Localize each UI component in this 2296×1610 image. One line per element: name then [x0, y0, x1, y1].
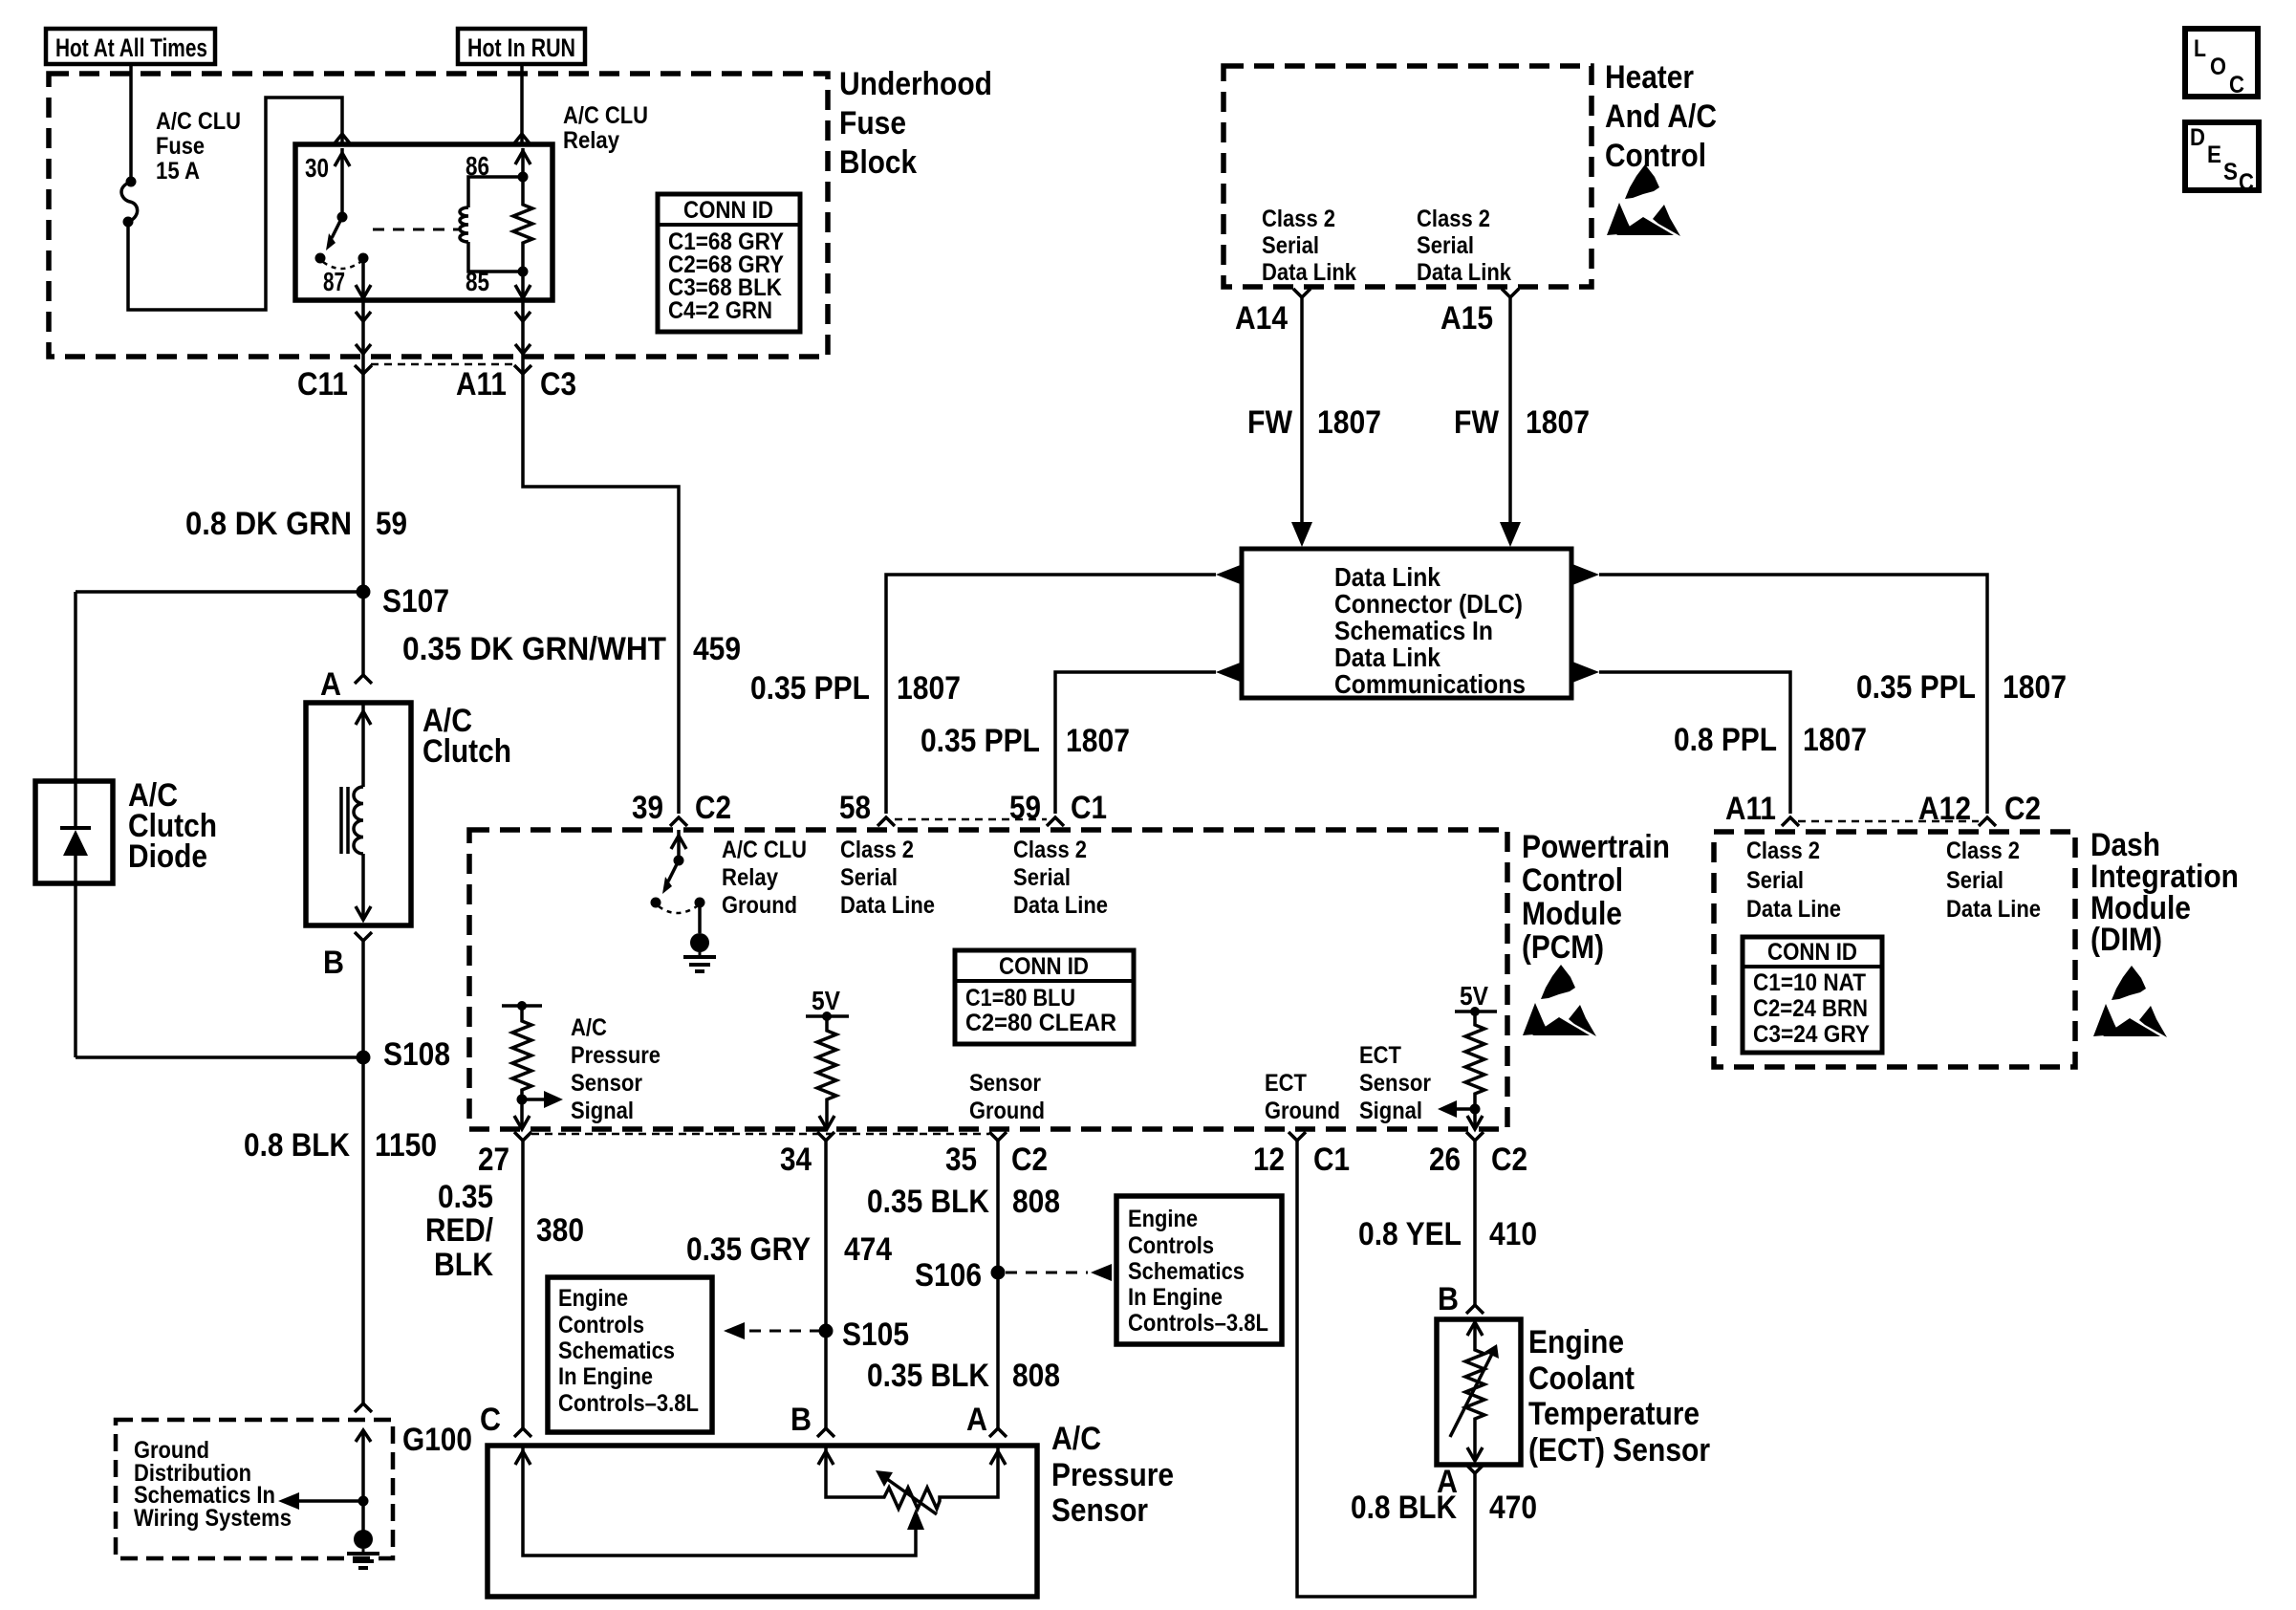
svg-text:Data Link: Data Link: [1334, 642, 1440, 672]
svg-text:A15: A15: [1440, 300, 1493, 337]
svg-text:Sensor: Sensor: [1359, 1070, 1431, 1097]
ESD symbol (PCM): [1523, 965, 1596, 1036]
svg-text:G100: G100: [402, 1422, 472, 1458]
svg-text:(ECT) Sensor: (ECT) Sensor: [1528, 1432, 1710, 1469]
svg-text:C: C: [2229, 72, 2244, 98]
fuse F1: A/C CLU Fuse 15 A: [121, 108, 241, 228]
relay label: [563, 102, 648, 154]
svg-text:C1=80 BLU: C1=80 BLU: [965, 985, 1075, 1012]
svg-text:ECT: ECT: [1359, 1042, 1401, 1069]
svg-text:A11: A11: [1725, 791, 1776, 827]
svg-text:O: O: [2210, 54, 2226, 80]
svg-text:459: 459: [693, 631, 741, 667]
connector 34: [817, 1132, 834, 1141]
engine controls note box (left): [548, 1277, 712, 1432]
wire 59: 0.8 DK GRN from C11 to S107: [361, 374, 365, 592]
svg-text:A/C: A/C: [571, 1014, 607, 1041]
CONN ID table (PCM): [955, 950, 1134, 1044]
svg-text:474: 474: [844, 1231, 892, 1268]
svg-text:E: E: [2207, 141, 2221, 168]
svg-text:Sensor: Sensor: [1051, 1492, 1148, 1529]
svg-text:A/C: A/C: [1051, 1421, 1101, 1457]
ground G100: [356, 1430, 371, 1442]
svg-text:Relay: Relay: [563, 127, 619, 154]
wire: S107 down to A/C Clutch pin A: [361, 592, 365, 675]
svg-text:Pressure: Pressure: [1051, 1457, 1174, 1493]
connector 26/C2: [1466, 1132, 1484, 1141]
svg-text:Serial: Serial: [1746, 867, 1804, 894]
svg-text:Engine: Engine: [1128, 1206, 1198, 1232]
svg-text:BLK: BLK: [434, 1247, 493, 1283]
svg-text:0.8 BLK: 0.8 BLK: [244, 1127, 350, 1164]
svg-text:A14: A14: [1235, 300, 1288, 337]
svg-text:808: 808: [1012, 1358, 1060, 1394]
svg-text:S108: S108: [383, 1036, 450, 1073]
svg-text:1807: 1807: [1526, 404, 1590, 441]
svg-text:Coolant: Coolant: [1528, 1360, 1635, 1397]
wire 808: 0.35 BLK upper: [996, 1141, 1000, 1428]
wire: fuse to relay pin 30: [128, 98, 342, 310]
relay switch arm: [315, 212, 369, 270]
svg-text:CONN ID: CONN ID: [999, 953, 1089, 980]
wire 470: 0.8 BLK from ECT A to PCM pin 12: [1297, 1141, 1475, 1597]
svg-text:Data Link: Data Link: [1262, 259, 1356, 286]
svg-text:C2=24 BRN: C2=24 BRN: [1753, 995, 1868, 1022]
resistor: A/C pressure sensor signal pull-up: [502, 1001, 563, 1129]
svg-text:C: C: [2239, 169, 2254, 196]
connector 58 (PCM top): [877, 817, 895, 826]
svg-text:Hot In RUN: Hot In RUN: [467, 33, 575, 62]
DLC right lower arrow to DIM A11: [1572, 662, 1599, 683]
svg-text:0.35 PPL: 0.35 PPL: [750, 670, 870, 707]
svg-text:27: 27: [478, 1142, 509, 1178]
node: ECT Sensor Signal: [1359, 1042, 1431, 1124]
svg-text:FW: FW: [1247, 404, 1293, 441]
svg-text:S: S: [2223, 159, 2238, 185]
connector A11/C3: [514, 365, 531, 374]
svg-text:(DIM): (DIM): [2090, 922, 2162, 958]
connector C11: [355, 365, 372, 374]
A/C CLU relay ground switch inside PCM: [651, 830, 717, 971]
node: ECT Ground: [1265, 1070, 1340, 1124]
svg-text:1807: 1807: [2003, 669, 2067, 706]
svg-text:59: 59: [376, 506, 407, 542]
svg-text:Class 2: Class 2: [1013, 837, 1087, 863]
A/C Clutch Diode D1: [35, 777, 217, 883]
svg-text:Data Line: Data Line: [1746, 896, 1841, 923]
svg-text:Sensor: Sensor: [571, 1070, 642, 1097]
wire 380: 0.35 RED/BLK: [521, 1141, 525, 1428]
svg-text:1807: 1807: [1803, 722, 1867, 758]
wire: battery feed from Hot At All Times to fuse: [129, 64, 133, 180]
ECT label: [1528, 1324, 1710, 1469]
svg-text:Class 2: Class 2: [1746, 838, 1820, 864]
relay coil: [460, 177, 523, 272]
wire 474: 0.35 GRY: [824, 1141, 828, 1428]
connector A12/C2 (DIM): [1979, 817, 1996, 826]
svg-text:0.8 YEL: 0.8 YEL: [1358, 1216, 1462, 1252]
svg-text:S105: S105: [842, 1316, 909, 1353]
svg-text:Communications: Communications: [1334, 669, 1526, 699]
svg-text:L: L: [2194, 35, 2206, 62]
node: Class 2 Serial Data Link (right, A15): [1417, 206, 1511, 286]
svg-text:0.8 PPL: 0.8 PPL: [1674, 722, 1777, 758]
svg-text:59: 59: [1009, 790, 1041, 826]
svg-text:B: B: [1438, 1281, 1459, 1317]
wiper arm: [907, 1509, 924, 1530]
svg-text:A/C CLU: A/C CLU: [156, 108, 241, 135]
svg-text:S106: S106: [915, 1257, 982, 1294]
relay suppression resistor: [513, 177, 532, 277]
connector in-line dash A11 to A12: [1798, 820, 1979, 823]
svg-text:D: D: [2190, 124, 2205, 151]
svg-text:Clutch: Clutch: [422, 733, 511, 770]
svg-text:1807: 1807: [1066, 723, 1130, 759]
connector A11 (DIM): [1782, 817, 1799, 826]
svg-text:26: 26: [1429, 1142, 1461, 1178]
node: Class 2 Serial Data Line (pin 58): [840, 837, 935, 919]
connector in-line dash C11 to A11: [371, 363, 514, 366]
splice S106: [991, 1266, 1006, 1280]
svg-text:Ground: Ground: [1265, 1098, 1340, 1124]
svg-text:Signal: Signal: [1359, 1098, 1422, 1124]
svg-text:Ground: Ground: [969, 1098, 1045, 1124]
svg-text:Data Line: Data Line: [1013, 892, 1108, 919]
node: Sensor Ground: [969, 1070, 1045, 1124]
svg-text:C4=2 GRN: C4=2 GRN: [668, 297, 772, 324]
svg-text:1150: 1150: [375, 1127, 437, 1164]
svg-text:Ground: Ground: [722, 892, 797, 919]
svg-text:85: 85: [466, 267, 489, 296]
svg-text:Module: Module: [1522, 896, 1622, 932]
svg-text:C1: C1: [1313, 1142, 1350, 1178]
svg-text:FW: FW: [1454, 404, 1500, 441]
svg-text:0.35 PPL: 0.35 PPL: [1856, 669, 1976, 706]
connector in-line dash 27 to 35: [531, 1133, 989, 1136]
svg-text:C2: C2: [1491, 1142, 1527, 1178]
svg-text:5V: 5V: [1460, 981, 1488, 1011]
svg-text:A: A: [966, 1402, 987, 1438]
svg-text:0.8 BLK: 0.8 BLK: [1351, 1490, 1457, 1526]
svg-text:C1: C1: [1071, 790, 1107, 826]
svg-text:Serial: Serial: [840, 864, 898, 891]
connector 35/C2: [989, 1132, 1007, 1141]
svg-text:(PCM): (PCM): [1522, 929, 1604, 966]
svg-text:0.35 BLK: 0.35 BLK: [867, 1358, 989, 1394]
node: Hot At All Times box: [46, 29, 215, 64]
node: A/C CLU Relay Ground: [722, 837, 807, 919]
svg-text:C3=24 GRY: C3=24 GRY: [1753, 1021, 1870, 1048]
svg-text:In Engine: In Engine: [1128, 1284, 1223, 1311]
svg-text:And A/C: And A/C: [1605, 98, 1717, 135]
DLC left lower arrow to PCM pin 59: [1216, 662, 1243, 683]
svg-text:Serial: Serial: [1417, 232, 1474, 259]
ESD symbol (heater): [1607, 164, 1680, 236]
connector in-line dash 58 to 59/C1: [895, 818, 1047, 821]
svg-text:Block: Block: [839, 144, 917, 181]
svg-text:Controls: Controls: [1128, 1232, 1214, 1259]
underhood fuse block dashed box: [49, 74, 828, 357]
connector A14: [1293, 289, 1310, 297]
svg-text:CONN ID: CONN ID: [683, 197, 773, 224]
svg-text:A: A: [320, 666, 341, 703]
svg-text:35: 35: [945, 1142, 977, 1178]
connector 12/C1: [1289, 1132, 1306, 1141]
svg-text:Fuse: Fuse: [839, 105, 906, 141]
svg-text:380: 380: [536, 1212, 584, 1249]
svg-text:0.8 DK GRN: 0.8 DK GRN: [185, 506, 352, 542]
A/C Clutch M1: [306, 703, 511, 925]
wire: S107 to diode branch: [76, 590, 363, 594]
svg-text:B: B: [323, 945, 344, 981]
svg-text:ECT: ECT: [1265, 1070, 1307, 1097]
svg-text:Connector (DLC): Connector (DLC): [1334, 589, 1523, 619]
node: Class 2 Serial Data Line (pin 59): [1013, 837, 1108, 919]
svg-text:5V: 5V: [812, 986, 840, 1015]
wire FW 1807 (A15 to DLC): [1508, 297, 1512, 524]
A/C Pressure Sensor label: [1051, 1421, 1174, 1529]
svg-text:Heater: Heater: [1605, 59, 1694, 96]
svg-text:RED/: RED/: [425, 1212, 493, 1249]
svg-text:S107: S107: [382, 583, 449, 620]
svg-text:Serial: Serial: [1013, 864, 1071, 891]
svg-text:0.35 DK GRN/WHT: 0.35 DK GRN/WHT: [402, 631, 666, 667]
DLC left upper arrow to PCM pin 58: [1216, 564, 1243, 585]
svg-text:Signal: Signal: [571, 1098, 634, 1124]
svg-text:39: 39: [632, 790, 663, 826]
splice S105: [819, 1324, 834, 1338]
svg-text:Class 2: Class 2: [1417, 206, 1490, 232]
svg-text:CONN ID: CONN ID: [1767, 939, 1857, 966]
svg-text:C2: C2: [2004, 791, 2041, 827]
svg-text:Schematics In: Schematics In: [1334, 616, 1493, 645]
svg-text:87: 87: [323, 267, 345, 296]
svg-text:A/C CLU: A/C CLU: [722, 837, 807, 863]
node: A/C Pressure Sensor Signal: [571, 1014, 661, 1124]
svg-text:A/C CLU: A/C CLU: [563, 102, 648, 129]
engine controls note box (right): [1116, 1196, 1282, 1344]
svg-text:Control: Control: [1605, 138, 1706, 174]
svg-text:Underhood: Underhood: [839, 66, 992, 102]
svg-text:C3: C3: [540, 366, 576, 402]
connector 39/C2 (PCM top): [670, 817, 687, 826]
wire FW 1807 (A14 to DLC): [1300, 297, 1304, 524]
svg-text:15 A: 15 A: [156, 158, 200, 185]
svg-text:C1=10 NAT: C1=10 NAT: [1753, 969, 1866, 996]
svg-text:Class 2: Class 2: [840, 837, 914, 863]
connector 27 (PCM bottom): [514, 1132, 531, 1141]
connector 59/C1 (PCM top): [1047, 817, 1064, 826]
svg-text:C11: C11: [297, 366, 348, 402]
svg-text:0.35 PPL: 0.35 PPL: [921, 723, 1040, 759]
svg-text:Serial: Serial: [1946, 867, 2004, 894]
ground distribution dashed box: [116, 1420, 393, 1558]
svg-text:Serial: Serial: [1262, 232, 1319, 259]
svg-text:Diode: Diode: [128, 838, 207, 875]
svg-text:Engine: Engine: [1528, 1324, 1624, 1360]
relay coil dashed actuator line: [373, 228, 459, 231]
DLC right upper arrow to DIM A12: [1572, 564, 1599, 585]
svg-text:Data Line: Data Line: [840, 892, 935, 919]
svg-text:Hot At All Times: Hot At All Times: [55, 33, 207, 62]
node: Class 2 Serial Data Link (left, A14): [1262, 206, 1356, 286]
node: Class 2 Serial Data Line (DIM right): [1946, 838, 2041, 923]
ESD symbol (DIM): [2093, 966, 2167, 1037]
svg-text:Data Link: Data Link: [1417, 259, 1511, 286]
svg-text:Controls–3.8L: Controls–3.8L: [558, 1390, 699, 1417]
svg-text:Relay: Relay: [722, 864, 778, 891]
svg-text:Schematics: Schematics: [1128, 1258, 1245, 1285]
svg-text:58: 58: [839, 790, 871, 826]
svg-text:In Engine: In Engine: [558, 1363, 653, 1390]
svg-text:Control: Control: [1522, 862, 1623, 899]
node: Hot In RUN box: [458, 29, 585, 64]
CONN ID table (DIM): [1743, 937, 1882, 1053]
wire 1150: 0.8 BLK down to G100: [361, 1057, 365, 1403]
svg-text:A11: A11: [456, 366, 507, 402]
svg-text:Engine: Engine: [558, 1285, 628, 1312]
resistor: 5V sensor supply: [806, 986, 849, 1129]
svg-text:470: 470: [1489, 1490, 1537, 1526]
svg-text:1807: 1807: [897, 670, 961, 707]
svg-text:Fuse: Fuse: [156, 133, 205, 160]
junction to ground distribution note: [358, 1496, 369, 1507]
svg-text:1807: 1807: [1317, 404, 1381, 441]
svg-text:0.35 BLK: 0.35 BLK: [867, 1184, 989, 1220]
pot adjustment arrow: [887, 1479, 937, 1514]
svg-text:Class 2: Class 2: [1946, 838, 2020, 864]
svg-text:Class 2: Class 2: [1262, 206, 1335, 232]
svg-text:Pressure: Pressure: [571, 1042, 661, 1069]
svg-text:Wiring Systems: Wiring Systems: [134, 1505, 292, 1532]
svg-text:30: 30: [305, 153, 329, 183]
svg-text:B: B: [791, 1402, 812, 1438]
svg-text:Temperature: Temperature: [1528, 1396, 1700, 1432]
wire: relay pin 87 to connector C11: [356, 300, 371, 374]
svg-text:C2: C2: [695, 790, 731, 826]
svg-text:Powertrain: Powertrain: [1522, 829, 1670, 865]
svg-text:Controls–3.8L: Controls–3.8L: [1128, 1310, 1268, 1337]
svg-text:C: C: [480, 1402, 501, 1438]
resistor: ECT 5V pull-up: [1438, 981, 1497, 1129]
svg-text:Controls: Controls: [558, 1312, 644, 1338]
svg-text:0.35: 0.35: [438, 1179, 493, 1215]
splice S108: [357, 1051, 371, 1065]
svg-text:12: 12: [1253, 1142, 1285, 1178]
splice S107: [357, 585, 371, 599]
svg-text:0.35 GRY: 0.35 GRY: [686, 1231, 811, 1268]
svg-text:C2: C2: [1011, 1142, 1048, 1178]
svg-text:Data Link: Data Link: [1334, 562, 1440, 592]
svg-text:410: 410: [1489, 1216, 1537, 1252]
wire 410: 0.8 YEL from pin 26 to ECT B: [1473, 1141, 1477, 1305]
svg-text:34: 34: [780, 1142, 812, 1178]
svg-text:Data Line: Data Line: [1946, 896, 2041, 923]
svg-text:808: 808: [1012, 1184, 1060, 1220]
wire: relay pin 85 to connector A11/C3: [515, 300, 531, 374]
underhood fuse block label: [839, 66, 992, 181]
wire: Hot In RUN down to relay pin 86: [520, 64, 524, 134]
connector chevron into relay pin 30: [335, 134, 350, 143]
connector A15: [1502, 289, 1519, 297]
svg-text:Sensor: Sensor: [969, 1070, 1041, 1097]
svg-text:C2=80 CLEAR: C2=80 CLEAR: [965, 1010, 1116, 1036]
svg-text:Schematics: Schematics: [558, 1338, 675, 1364]
node: Class 2 Serial Data Line (DIM left): [1746, 838, 1841, 923]
potentiometer resistive element: [826, 1476, 998, 1509]
